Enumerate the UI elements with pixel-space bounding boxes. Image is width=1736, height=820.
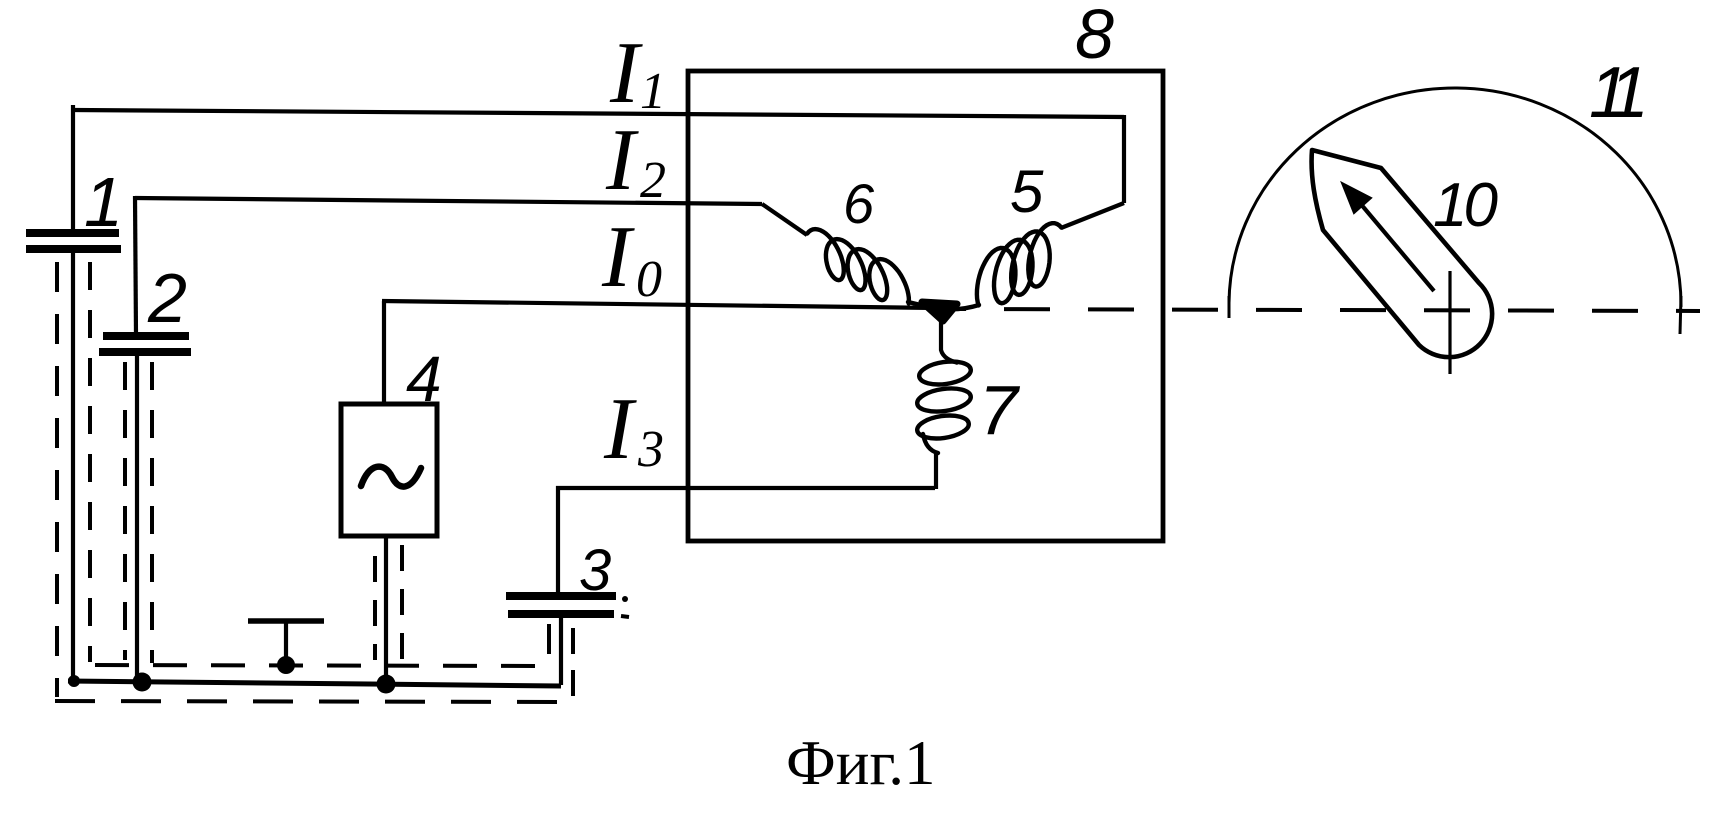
capacitor 3 lower wire — [559, 617, 563, 685]
pointer 10 (float/needle outline) — [1312, 150, 1493, 357]
wire I3 left vertical into capacitor 3 — [556, 486, 560, 595]
pointer arrowhead — [1342, 183, 1371, 213]
scale arc 11 (semicircle) — [1229, 88, 1681, 307]
label 8 (enclosure) — [1075, 0, 1114, 69]
capacitor 3 top plate — [506, 592, 616, 600]
ground bar — [248, 618, 324, 624]
shield dashed: capacitor 3 outer vertical — [571, 628, 575, 701]
junction dot block 4 / bus — [377, 675, 396, 694]
capacitor 2 top plate — [103, 332, 189, 340]
block 4 lower wire — [384, 536, 388, 684]
coil 6 tail to star point — [908, 302, 938, 309]
label I3 (current) — [604, 386, 633, 474]
wire I2 horizontal — [135, 198, 762, 204]
pointer arrow shaft — [1349, 190, 1434, 291]
enclosure box 8 — [688, 71, 1163, 541]
coil 7 ring 2 — [916, 385, 973, 414]
wire I2 left vertical into capacitor 2 — [135, 196, 136, 336]
shield dashed: block 4 right — [400, 545, 404, 663]
wire I1 top horizontal — [73, 110, 1124, 117]
wire I0 horizontal to star point — [382, 301, 938, 308]
coil 7 ring 1 — [918, 358, 973, 387]
capacitor 1 bottom plate — [26, 245, 121, 253]
generator block 4 — [341, 404, 437, 536]
label 3 (capacitor 3) — [579, 542, 611, 600]
coil 7 ring 3 — [916, 412, 971, 441]
capacitor 2 bottom plate — [99, 348, 191, 356]
shield dashed: block 4 left — [373, 556, 377, 660]
shield dashed: outer bottom horizontal — [55, 701, 573, 702]
capacitor 1 lower wire — [71, 252, 75, 682]
coil 7 top lead from star point — [941, 309, 958, 363]
capacitor 3 bottom plate speck — [621, 616, 629, 617]
coil 7 bottom tail — [923, 434, 938, 453]
shield dashed: capacitor 2 left — [123, 362, 127, 660]
wire I1 vertical inside box 8 — [1122, 115, 1126, 203]
label I1 (current) — [610, 30, 639, 118]
capacitor 2 lower wire — [135, 355, 139, 683]
capacitor 3 top plate speck — [622, 596, 628, 602]
shield dashed: capacitor 3 inner vertical — [547, 624, 551, 667]
shield dashed: inner horizontal — [95, 665, 545, 666]
common bus (solid bottom wire) — [68, 681, 561, 686]
shield dashed: capacitor 2 right — [150, 362, 154, 663]
arc right end tick — [1680, 296, 1681, 334]
label 6 (coil) — [843, 176, 874, 232]
wire I2 diagonal to coil 6 — [762, 204, 807, 235]
wire I3 horizontal — [556, 486, 935, 490]
pivot cross vertical — [1448, 271, 1451, 374]
label 1 (capacitor 1) — [84, 167, 123, 237]
arc left end tick — [1228, 296, 1231, 318]
capacitor 1 top plate — [26, 229, 119, 237]
ground stem — [284, 621, 288, 664]
shield dashed: capacitor 1 left — [55, 262, 59, 697]
caption Фиг.1 — [786, 732, 935, 795]
wire I1 diagonal to coil 5 — [1061, 203, 1124, 228]
capacitor 3 bottom plate — [508, 610, 614, 618]
shield dashed: capacitor 1 right — [88, 262, 92, 662]
wire I0 vertical into block 4 — [382, 301, 386, 405]
label 11 (scale arc) — [1589, 57, 1634, 129]
ground junction dot — [277, 656, 295, 674]
wire I1 left vertical into capacitor 1 — [71, 105, 75, 233]
label I0 (current) — [602, 214, 631, 302]
label 7 (coil) — [979, 375, 1018, 445]
label 2 (capacitor 2) — [148, 263, 187, 333]
junction dot capacitor 2 / bus — [133, 673, 152, 692]
label 4 (generator) — [406, 347, 442, 411]
label I2 (current) — [606, 117, 635, 205]
coil 5 tail to star point — [943, 305, 979, 309]
sine symbol inside block 4 — [361, 467, 421, 487]
dashed rotation axis line — [950, 309, 1700, 311]
bus corner dot left — [68, 675, 80, 687]
star point node (junction dot) — [922, 302, 957, 321]
wire I3 right vertical up to coil 7 — [934, 452, 938, 489]
label 10 (pointer) — [1433, 175, 1494, 237]
coil 5 — [977, 223, 1062, 305]
coil 6 — [807, 229, 909, 303]
label 5 (coil) — [1010, 162, 1043, 222]
